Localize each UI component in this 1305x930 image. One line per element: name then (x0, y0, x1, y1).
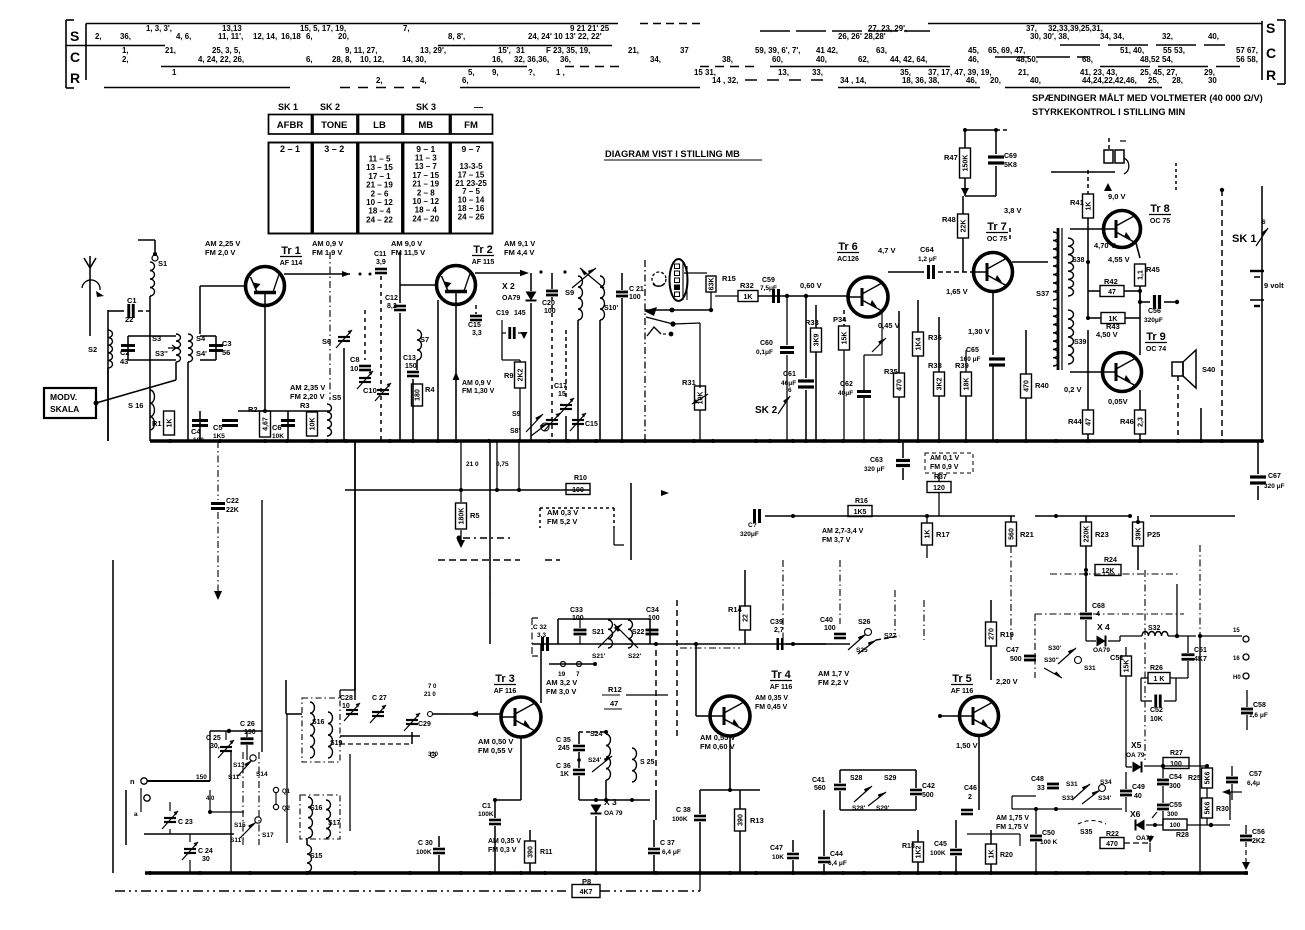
svg-text:15: 15 (558, 391, 566, 398)
svg-text:X6: X6 (1130, 809, 1141, 819)
svg-text:FM 0,3 V: FM 0,3 V (488, 847, 517, 854)
svg-text:R15: R15 (722, 274, 736, 283)
svg-text:22: 22 (125, 315, 133, 324)
svg-text:13, 29',: 13, 29', (420, 46, 446, 55)
svg-text:S30'': S30'' (1044, 657, 1059, 664)
svg-text:R19: R19 (1000, 630, 1014, 639)
svg-text:100K: 100K (478, 811, 494, 818)
svg-text:100: 100 (544, 308, 556, 315)
svg-text:1K: 1K (989, 850, 996, 859)
svg-text:59, 39, 6', 7',: 59, 39, 6', 7', (755, 46, 800, 55)
svg-text:S6: S6 (322, 337, 331, 346)
svg-text:1: 1 (172, 68, 177, 77)
svg-text:X 2: X 2 (502, 281, 515, 291)
svg-text:S: S (1266, 20, 1275, 36)
svg-text:SKALA: SKALA (50, 404, 79, 414)
svg-text:21,: 21, (1018, 68, 1029, 77)
svg-text:1 K: 1 K (1154, 676, 1165, 683)
svg-text:15K: 15K (842, 332, 849, 345)
svg-text:4,7 V: 4,7 V (878, 246, 896, 255)
svg-text:C67: C67 (1268, 473, 1281, 480)
svg-text:22K: 22K (226, 507, 239, 514)
svg-text:C5: C5 (213, 423, 223, 432)
svg-text:C20: C20 (542, 300, 555, 307)
svg-text:1K5: 1K5 (213, 433, 225, 440)
svg-text:19: 19 (558, 671, 566, 678)
svg-text:STYRKEKONTROL I STILLING: STYRKEKONTROL I STILLING MIN (1032, 107, 1186, 117)
svg-text:9,0 V: 9,0 V (1108, 192, 1126, 201)
svg-text:56 58,: 56 58, (1236, 55, 1258, 64)
svg-text:S: S (70, 28, 79, 44)
svg-text:2,7: 2,7 (774, 627, 784, 634)
svg-text:4, 6,: 4, 6, (176, 32, 191, 41)
svg-text:SK 1: SK 1 (278, 102, 298, 112)
svg-text:46μF: 46μF (781, 380, 796, 387)
svg-text:R23: R23 (1095, 530, 1109, 539)
svg-text:R17: R17 (936, 530, 950, 539)
svg-text:21 0: 21 0 (466, 461, 479, 468)
svg-text:SK 2: SK 2 (755, 405, 778, 416)
svg-text:S21: S21 (592, 629, 605, 636)
svg-text:9 – 7: 9 – 7 (462, 144, 481, 154)
svg-text:C 35: C 35 (556, 737, 571, 744)
svg-text:2K2: 2K2 (518, 368, 525, 381)
svg-text:AM 0,1 V: AM 0,1 V (930, 455, 960, 462)
svg-text:100: 100 (1170, 822, 1181, 829)
svg-text:S31: S31 (1084, 665, 1096, 672)
svg-text:320 μF: 320 μF (864, 466, 885, 473)
svg-text:P8: P8 (582, 877, 591, 886)
svg-text:S34': S34' (1098, 795, 1112, 802)
svg-text:AM 1,75 V: AM 1,75 V (996, 815, 1029, 822)
svg-text:AM 0,3 V: AM 0,3 V (547, 508, 578, 517)
svg-text:62,: 62, (858, 55, 869, 64)
svg-text:32, 36,36,: 32, 36,36, (514, 55, 549, 64)
svg-text:26, 26' 28,28': 26, 26' 28,28' (838, 32, 886, 41)
svg-text:7: 7 (576, 671, 580, 678)
svg-text:AM 9,0 V: AM 9,0 V (391, 239, 422, 248)
svg-text:S 16: S 16 (128, 401, 143, 410)
svg-text:C50: C50 (1042, 830, 1055, 837)
svg-text:Q2: Q2 (282, 806, 291, 812)
svg-text:2 – 8: 2 – 8 (417, 188, 435, 197)
svg-text:30: 30 (1208, 76, 1217, 85)
svg-text:C1: C1 (127, 296, 137, 305)
svg-text:OA 79: OA 79 (604, 810, 623, 817)
svg-text:220K: 220K (1084, 526, 1091, 543)
svg-text:C42: C42 (922, 783, 935, 790)
svg-text:1K: 1K (925, 530, 932, 539)
svg-text:Tr 1: Tr 1 (281, 245, 301, 257)
svg-text:4, 24, 22, 26,: 4, 24, 22, 26, (198, 55, 244, 64)
svg-text:1,: 1, (122, 46, 129, 55)
svg-text:Q1: Q1 (282, 789, 291, 795)
svg-text:C58: C58 (1253, 702, 1266, 709)
svg-text:5K6: 5K6 (1205, 801, 1212, 814)
svg-text:C60: C60 (760, 340, 773, 347)
svg-text:S35: S35 (1080, 829, 1093, 836)
svg-text:2 – 6: 2 – 6 (371, 189, 389, 198)
svg-text:4,50 V: 4,50 V (1096, 330, 1118, 339)
svg-text:R3: R3 (300, 401, 310, 410)
svg-text:47: 47 (1086, 418, 1093, 426)
svg-text:100: 100 (572, 487, 584, 494)
svg-text:34, 34,: 34, 34, (1100, 32, 1124, 41)
svg-text:OC 75: OC 75 (987, 236, 1007, 243)
svg-text:C64: C64 (920, 245, 935, 254)
svg-text:Tr 9: Tr 9 (1146, 331, 1166, 343)
svg-text:S1: S1 (158, 259, 167, 268)
svg-text:9,: 9, (492, 68, 499, 77)
svg-text:36,: 36, (560, 55, 571, 64)
svg-text:C41: C41 (812, 777, 825, 784)
svg-text:1K2: 1K2 (916, 845, 923, 858)
svg-text:FM 5,2 V: FM 5,2 V (547, 517, 577, 526)
svg-text:13 – 15: 13 – 15 (366, 163, 393, 172)
svg-text:R42: R42 (1104, 277, 1118, 286)
svg-text:FM 0,55 V: FM 0,55 V (478, 746, 513, 755)
svg-text:C62: C62 (840, 381, 853, 388)
svg-text:C1: C1 (482, 803, 491, 810)
svg-text:470: 470 (1024, 380, 1031, 392)
svg-text:S28': S28' (852, 805, 866, 812)
svg-text:17 – 1: 17 – 1 (368, 172, 391, 181)
svg-text:S29: S29 (884, 775, 897, 782)
svg-text:8, 8',: 8, 8', (448, 32, 465, 41)
svg-text:R20: R20 (1000, 852, 1013, 859)
svg-text:—: — (474, 102, 483, 112)
svg-text:R1: R1 (152, 419, 162, 428)
svg-text:SK 2: SK 2 (320, 102, 340, 112)
svg-text:10 – 12: 10 – 12 (366, 198, 393, 207)
svg-text:C15: C15 (585, 421, 598, 428)
svg-text:1,2 μF: 1,2 μF (918, 256, 937, 263)
svg-text:21,: 21, (165, 46, 176, 55)
svg-text:1,65 V: 1,65 V (946, 287, 968, 296)
svg-text:100: 100 (193, 437, 204, 444)
svg-text:47: 47 (610, 699, 618, 708)
svg-text:Tr 2: Tr 2 (473, 244, 493, 256)
svg-text:R46: R46 (1120, 417, 1134, 426)
svg-text:3K2: 3K2 (937, 377, 944, 390)
svg-text:100K: 100K (672, 816, 688, 823)
svg-text:14 , 32,: 14 , 32, (712, 76, 738, 85)
svg-text:3K9: 3K9 (814, 333, 821, 346)
svg-text:C69: C69 (1004, 153, 1017, 160)
svg-text:13,: 13, (778, 68, 789, 77)
svg-text:S16: S16 (312, 719, 325, 726)
svg-text:Tr 5: Tr 5 (952, 673, 972, 685)
svg-text:60,: 60, (772, 55, 783, 64)
svg-text:C40: C40 (820, 617, 833, 624)
svg-text:AM 1,7 V: AM 1,7 V (818, 669, 849, 678)
svg-text:C 21: C 21 (629, 286, 644, 293)
svg-text:9, 11, 27,: 9, 11, 27, (345, 46, 377, 55)
svg-text:R11: R11 (540, 849, 553, 856)
svg-text:0,45 V: 0,45 V (878, 321, 900, 330)
svg-text:2: 2 (968, 794, 972, 801)
svg-text:C 27: C 27 (372, 695, 387, 702)
svg-text:4,67: 4,67 (263, 417, 270, 431)
svg-text:C48: C48 (1031, 776, 1044, 783)
svg-text:1,50 V: 1,50 V (956, 741, 978, 750)
svg-text:AM 0,9 V: AM 0,9 V (312, 239, 343, 248)
svg-text:C 36: C 36 (556, 763, 571, 770)
svg-text:40,: 40, (816, 55, 827, 64)
svg-text:22: 22 (743, 614, 750, 622)
svg-text:245: 245 (558, 745, 570, 752)
svg-text:33: 33 (1037, 785, 1045, 792)
svg-text:44,24,22,42,46,: 44,24,22,42,46, (1082, 76, 1137, 85)
svg-text:100: 100 (1170, 761, 1182, 768)
svg-text:34,: 34, (650, 55, 661, 64)
svg-text:F 23, 35, 19,: F 23, 35, 19, (546, 46, 590, 55)
svg-text:LB: LB (373, 120, 386, 131)
svg-text:C 30: C 30 (418, 840, 433, 847)
svg-text:R48: R48 (942, 215, 956, 224)
svg-text:560: 560 (814, 785, 826, 792)
svg-text:C17: C17 (554, 383, 567, 390)
svg-text:6,: 6, (306, 55, 313, 64)
svg-text:R12: R12 (608, 685, 622, 694)
svg-text:Tr 7: Tr 7 (987, 221, 1007, 233)
svg-text:S17: S17 (262, 832, 274, 839)
svg-text:100 K: 100 K (1040, 839, 1058, 846)
svg-text:R26: R26 (1150, 665, 1163, 672)
svg-text:33,: 33, (812, 68, 823, 77)
svg-text:4,55 V: 4,55 V (1108, 255, 1130, 264)
svg-text:1, 3, 3',: 1, 3, 3', (146, 24, 172, 33)
svg-text:300: 300 (1167, 811, 1178, 818)
svg-text:25,: 25, (1148, 76, 1159, 85)
svg-text:R35: R35 (884, 367, 898, 376)
svg-text:48,52 54,: 48,52 54, (1140, 55, 1173, 64)
svg-text:AM 2,25 V: AM 2,25 V (205, 239, 240, 248)
svg-text:C 38: C 38 (676, 807, 691, 814)
svg-text:C28: C28 (340, 695, 353, 702)
svg-text:10K: 10K (272, 433, 284, 440)
svg-text:560: 560 (1009, 528, 1016, 540)
svg-text:FM 2,20 V: FM 2,20 V (290, 392, 325, 401)
svg-text:C12: C12 (385, 295, 398, 302)
svg-text:C: C (70, 49, 80, 65)
svg-text:320μF: 320μF (1144, 317, 1163, 324)
svg-text:21 – 19: 21 – 19 (366, 181, 393, 190)
svg-text:R5: R5 (470, 511, 480, 520)
svg-text:100: 100 (572, 615, 584, 622)
svg-text:100K: 100K (930, 850, 946, 857)
svg-text:FM 1,9 V: FM 1,9 V (312, 248, 342, 257)
svg-text:390: 390 (528, 846, 535, 858)
svg-text:C13: C13 (403, 355, 416, 362)
svg-text:C 23: C 23 (178, 819, 193, 826)
svg-text:18K: 18K (964, 378, 971, 391)
svg-text:C33: C33 (570, 607, 583, 614)
svg-text:S15: S15 (234, 822, 246, 829)
svg-text:21 0: 21 0 (424, 692, 436, 698)
svg-text:2,: 2, (376, 76, 383, 85)
svg-text:S39: S39 (1074, 339, 1087, 346)
svg-text:R13: R13 (750, 816, 764, 825)
svg-text:55 53,: 55 53, (1163, 46, 1185, 55)
svg-text:32,: 32, (1162, 32, 1173, 41)
svg-text:21 – 19: 21 – 19 (412, 180, 439, 189)
svg-text:5K6: 5K6 (1205, 771, 1212, 784)
svg-text:6,4 μF: 6,4 μF (828, 860, 847, 867)
svg-text:C68: C68 (1092, 603, 1105, 610)
svg-text:1K: 1K (744, 294, 753, 301)
svg-text:C61: C61 (783, 371, 796, 378)
svg-text:63K: 63K (709, 278, 716, 291)
svg-text:10: 10 (342, 703, 350, 710)
svg-text:24 – 22: 24 – 22 (366, 215, 393, 224)
svg-text:56: 56 (222, 348, 230, 357)
svg-text:C47: C47 (1006, 647, 1019, 654)
svg-text:S16: S16 (310, 805, 323, 812)
svg-text:R18: R18 (902, 843, 915, 850)
svg-text:1,30 V: 1,30 V (968, 327, 990, 336)
svg-text:100: 100 (629, 294, 641, 301)
svg-text:1K: 1K (1086, 202, 1093, 211)
svg-text:R2: R2 (248, 405, 258, 414)
svg-text:320 μF: 320 μF (1264, 483, 1285, 490)
svg-text:14, 30,: 14, 30, (402, 55, 426, 64)
svg-text:AM 0,35 V: AM 0,35 V (488, 838, 521, 845)
svg-text:FM 1,30 V: FM 1,30 V (462, 388, 495, 395)
svg-text:21,: 21, (628, 46, 639, 55)
svg-text:0,2 V: 0,2 V (1064, 385, 1082, 394)
svg-text:0,05V: 0,05V (1108, 397, 1128, 406)
svg-text:37: 37 (680, 46, 689, 55)
svg-text:38,: 38, (722, 55, 733, 64)
svg-text:OC 75: OC 75 (1150, 218, 1170, 225)
svg-text:1K: 1K (560, 771, 569, 778)
svg-text:a: a (134, 811, 138, 818)
svg-text:C52: C52 (1150, 707, 1163, 714)
svg-text:AM 0,9 V: AM 0,9 V (462, 380, 492, 387)
svg-text:12, 14,: 12, 14, (253, 32, 277, 41)
svg-text:100: 100 (648, 615, 660, 622)
svg-text:15: 15 (1233, 628, 1240, 634)
svg-text:10 – 12: 10 – 12 (412, 197, 439, 206)
svg-text:6,: 6, (462, 76, 469, 85)
svg-text:AFBR: AFBR (277, 120, 304, 131)
svg-text:500: 500 (922, 792, 934, 799)
svg-text:4K7: 4K7 (580, 889, 593, 896)
svg-text:S10': S10' (604, 305, 618, 312)
svg-text:MODV.: MODV. (50, 392, 77, 402)
svg-text:OA 79: OA 79 (1126, 752, 1145, 759)
svg-text:SK 3: SK 3 (416, 102, 436, 112)
svg-text:OA79: OA79 (502, 295, 520, 302)
svg-text:28,: 28, (1172, 76, 1183, 85)
svg-text:S28: S28 (850, 775, 863, 782)
svg-text:FM 0,9 V: FM 0,9 V (930, 464, 959, 471)
svg-text:C55: C55 (1169, 802, 1182, 809)
svg-text:1,6 μF: 1,6 μF (1249, 712, 1268, 719)
svg-text:S17: S17 (328, 820, 341, 827)
svg-text:?,: ?, (528, 68, 535, 77)
svg-text:S24': S24' (588, 757, 602, 764)
svg-text:R4: R4 (425, 385, 435, 394)
svg-text:S31: S31 (1066, 781, 1078, 788)
svg-text:S22: S22 (632, 629, 645, 636)
svg-text:FM 2,2 V: FM 2,2 V (818, 678, 848, 687)
svg-text:7,: 7, (403, 24, 410, 33)
svg-text:6,: 6, (306, 32, 313, 41)
svg-text:2,20 V: 2,20 V (996, 677, 1018, 686)
svg-text:3 – 2: 3 – 2 (324, 144, 344, 154)
svg-text:C 25: C 25 (206, 735, 221, 742)
svg-text:R22: R22 (1106, 831, 1119, 838)
svg-text:AC126: AC126 (837, 256, 859, 263)
svg-text:24 – 20: 24 – 20 (412, 214, 439, 223)
svg-text:R32: R32 (740, 281, 754, 290)
svg-text:S25: S25 (856, 647, 868, 654)
svg-text:Tr 8: Tr 8 (1150, 203, 1170, 215)
svg-text:C57: C57 (1249, 771, 1262, 778)
svg-text:57 67,: 57 67, (1236, 46, 1258, 55)
svg-text:C39: C39 (770, 619, 783, 626)
svg-text:R: R (70, 70, 80, 86)
svg-text:500: 500 (1010, 656, 1022, 663)
svg-text:10K: 10K (310, 418, 317, 431)
svg-text:C: C (1266, 45, 1276, 61)
svg-text:300: 300 (1169, 783, 1181, 790)
svg-text:C6: C6 (272, 423, 282, 432)
svg-text:24 – 26: 24 – 26 (458, 212, 485, 221)
svg-text:18 – 4: 18 – 4 (415, 206, 438, 215)
svg-text:30,: 30, (210, 743, 220, 750)
svg-text:R31: R31 (682, 378, 696, 387)
svg-text:S26: S26 (858, 619, 871, 626)
svg-text:5,: 5, (468, 68, 475, 77)
svg-text:C45: C45 (934, 841, 947, 848)
svg-text:100K: 100K (416, 849, 432, 856)
svg-text:C56: C56 (1252, 829, 1265, 836)
svg-text:S2: S2 (88, 345, 97, 354)
svg-text:15K: 15K (1124, 660, 1131, 673)
svg-text:46,: 46, (966, 76, 977, 85)
svg-text:C46: C46 (964, 785, 977, 792)
svg-text:40μF: 40μF (838, 390, 853, 397)
svg-text:SK 1: SK 1 (1232, 233, 1256, 245)
svg-text:40: 40 (1134, 793, 1142, 800)
svg-text:0,60 V: 0,60 V (800, 281, 822, 290)
svg-text:2K2: 2K2 (1252, 838, 1265, 845)
svg-text:C 32: C 32 (533, 624, 547, 631)
svg-text:FM 0,45 V: FM 0,45 V (755, 704, 788, 711)
svg-text:C11: C11 (374, 251, 387, 258)
svg-text:8,2: 8,2 (387, 303, 397, 310)
svg-text:C10: C10 (363, 386, 377, 395)
svg-text:R27: R27 (1170, 750, 1183, 757)
svg-text:X5: X5 (1131, 740, 1142, 750)
svg-text:C3: C3 (222, 339, 232, 348)
svg-text:150: 150 (196, 774, 207, 781)
svg-text:AF 114: AF 114 (280, 260, 303, 267)
svg-text:10: 10 (350, 364, 358, 373)
svg-text:1K5: 1K5 (854, 509, 867, 516)
svg-text:2,: 2, (95, 32, 102, 41)
svg-text:S15: S15 (310, 853, 323, 860)
svg-text:9 – 1: 9 – 1 (416, 144, 435, 154)
svg-text:0,1μF: 0,1μF (756, 349, 773, 356)
svg-text:10K: 10K (772, 854, 784, 861)
svg-text:AM 2,7-3,4 V: AM 2,7-3,4 V (822, 528, 864, 535)
svg-text:C34: C34 (646, 607, 659, 614)
svg-text:S11': S11' (228, 774, 241, 781)
